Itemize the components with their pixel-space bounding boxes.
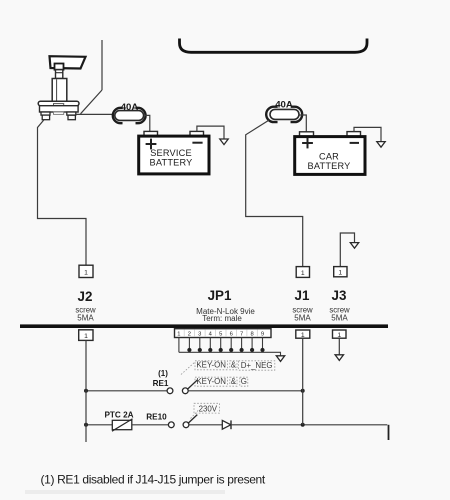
svg-text:5MA: 5MA (331, 313, 348, 322)
svg-text:9: 9 (261, 332, 264, 338)
svg-text:2: 2 (188, 332, 191, 338)
svg-text:J3: J3 (332, 288, 347, 303)
svg-text:7: 7 (240, 332, 243, 338)
svg-text:40A: 40A (275, 99, 293, 110)
svg-text:6: 6 (230, 332, 233, 338)
svg-text:&: & (231, 377, 237, 386)
svg-text:5: 5 (219, 332, 222, 338)
svg-text:PTC 2A: PTC 2A (104, 410, 133, 419)
svg-text:BATTERY: BATTERY (308, 161, 351, 171)
svg-text:(1): (1) (158, 369, 168, 378)
svg-text:BATTERY: BATTERY (150, 158, 193, 168)
svg-text:Term: male: Term: male (202, 314, 242, 323)
svg-text:KEY-ON: KEY-ON (196, 361, 226, 370)
svg-text:RE1: RE1 (153, 379, 169, 388)
svg-text:&: & (231, 361, 237, 370)
svg-text:RE10: RE10 (146, 412, 167, 421)
svg-text:8: 8 (250, 332, 253, 338)
svg-text:JP1: JP1 (208, 288, 232, 303)
svg-text:J1: J1 (295, 288, 310, 303)
svg-text:1: 1 (301, 332, 305, 339)
svg-text:5MA: 5MA (294, 313, 311, 322)
svg-text:230V: 230V (199, 405, 218, 414)
svg-text:1: 1 (84, 333, 88, 340)
svg-text:40A: 40A (121, 102, 139, 113)
svg-text:1: 1 (301, 270, 305, 277)
svg-text:5MA: 5MA (77, 313, 94, 322)
svg-text:1: 1 (84, 269, 88, 276)
svg-text:(1) RE1 disabled if J14-J15 ju: (1) RE1 disabled if J14-J15 jumper is pr… (41, 473, 266, 487)
svg-text:KEY-ON: KEY-ON (196, 377, 226, 386)
svg-text:1: 1 (337, 332, 341, 339)
svg-text:J2: J2 (78, 289, 93, 304)
svg-text:G: G (241, 377, 247, 386)
svg-text:D+_NEG: D+_NEG (241, 361, 273, 370)
svg-text:1: 1 (338, 270, 342, 277)
svg-text:3: 3 (198, 332, 201, 338)
svg-text:1: 1 (177, 332, 180, 338)
